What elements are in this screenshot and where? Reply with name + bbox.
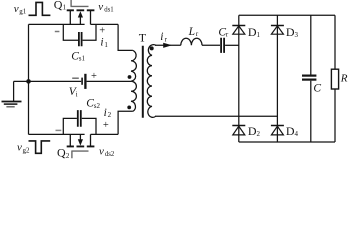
svg-text:ds2: ds2: [105, 151, 115, 158]
svg-text:r: r: [226, 31, 229, 39]
label vds2: [99, 145, 115, 158]
wire: Q2 source to primary bottom: [118, 111, 133, 134]
wire: bridge left leg: [238, 15, 240, 142]
wire: Q2 source row: [91, 133, 119, 135]
wire: battery to primary center tap: [87, 80, 131, 82]
wire: Cr to bridge: [225, 44, 239, 46]
gate pulse waveform vg1: [29, 2, 51, 15]
label D2: [248, 124, 261, 138]
svg-text:+: +: [103, 120, 109, 131]
polarity dot primary upper: [128, 75, 132, 79]
svg-text:r: r: [196, 30, 199, 38]
svg-text:1: 1: [257, 31, 261, 39]
label i1: [100, 37, 108, 49]
svg-text:2: 2: [66, 152, 70, 159]
svg-text:g1: g1: [19, 8, 27, 16]
svg-text:+: +: [99, 26, 105, 37]
label plus i1: [99, 26, 105, 37]
polarity dot primary lower: [127, 106, 131, 110]
polarity dot secondary: [150, 46, 154, 50]
label T: [139, 31, 147, 45]
label Lr: [188, 26, 199, 38]
transformer primary winding: [131, 50, 136, 111]
label minus Cs2: [56, 129, 62, 131]
capacitor Cr: [221, 38, 224, 53]
svg-text:R: R: [340, 72, 348, 84]
svg-text:i: i: [104, 107, 107, 119]
label C: [313, 82, 321, 94]
capacitor Cs1: [63, 24, 96, 46]
label Cr: [218, 26, 229, 38]
wire: bridge bottom rail: [239, 141, 335, 143]
wire: left rail: [28, 24, 30, 134]
wire: Q1 source row: [91, 23, 119, 25]
svg-text:Q: Q: [54, 0, 63, 11]
svg-text:r: r: [165, 35, 168, 43]
diode D4: [271, 126, 284, 135]
node junction on rail: [26, 79, 31, 84]
wire: Q2 drain row: [29, 133, 85, 135]
wire: Lr to Cr: [202, 44, 220, 46]
label D3: [286, 25, 299, 39]
svg-text:i: i: [100, 37, 103, 49]
svg-text:i: i: [76, 90, 78, 98]
svg-text:3: 3: [295, 31, 299, 39]
label plus i2: [103, 120, 109, 131]
label i2: [104, 107, 112, 119]
svg-text:1: 1: [63, 4, 67, 12]
svg-text:v: v: [99, 145, 104, 157]
svg-text:s1: s1: [79, 55, 86, 63]
label plus Vi: [91, 71, 97, 82]
svg-text:1: 1: [104, 41, 108, 49]
ground: [2, 81, 22, 106]
label vg1: [14, 3, 27, 16]
label Q2: [57, 146, 70, 160]
label Q1: [54, 0, 67, 12]
svg-text:+: +: [91, 71, 97, 82]
diode D1: [232, 26, 245, 35]
label Vi: [69, 86, 78, 99]
svg-text:C: C: [313, 82, 321, 94]
capacitor C output: [302, 15, 316, 142]
inductor Lr: [181, 38, 202, 45]
transformer core: [142, 46, 144, 118]
svg-text:g2: g2: [23, 146, 31, 154]
gate pulse waveform vg2: [29, 141, 51, 153]
wire: secondary bottom to right leg: [155, 115, 277, 117]
wire: bridge right leg: [276, 15, 278, 142]
diode D2: [232, 126, 245, 135]
svg-text:2: 2: [257, 130, 261, 138]
diode D3: [271, 26, 284, 35]
label ir: [160, 31, 167, 43]
svg-text:v: v: [17, 142, 22, 154]
label Cs2: [86, 98, 100, 110]
svg-text:v: v: [98, 1, 103, 13]
svg-text:s2: s2: [94, 102, 101, 110]
svg-text:v: v: [14, 3, 19, 15]
wire: Q1 source to primary top: [118, 24, 133, 50]
wire: bridge top rail: [239, 14, 335, 16]
svg-text:i: i: [160, 31, 163, 43]
label Cs1: [71, 50, 85, 62]
label D4: [286, 124, 299, 138]
battery Vi: [82, 74, 85, 89]
wire: ground to battery: [14, 80, 82, 82]
resistor R: [331, 15, 338, 142]
current arrow ir: [163, 43, 172, 48]
capacitor Cs2: [63, 110, 96, 134]
svg-text:T: T: [139, 31, 147, 45]
wire: Q1 drain row: [29, 23, 85, 25]
svg-text:L: L: [188, 26, 195, 38]
label minus Cs1: [55, 31, 60, 33]
label D1: [248, 25, 261, 39]
label minus Vi: [72, 77, 79, 79]
svg-text:Q: Q: [57, 146, 66, 159]
transistor Q1: [67, 0, 95, 24]
transformer secondary winding: [147, 45, 156, 118]
label vg2: [17, 142, 30, 155]
svg-text:2: 2: [108, 111, 112, 119]
wire: secondary top to Lr: [155, 44, 181, 46]
svg-text:4: 4: [295, 130, 299, 138]
label vds1: [98, 1, 113, 14]
label R: [340, 72, 348, 84]
transistor Q2: [67, 134, 95, 158]
svg-text:ds1: ds1: [104, 7, 113, 14]
